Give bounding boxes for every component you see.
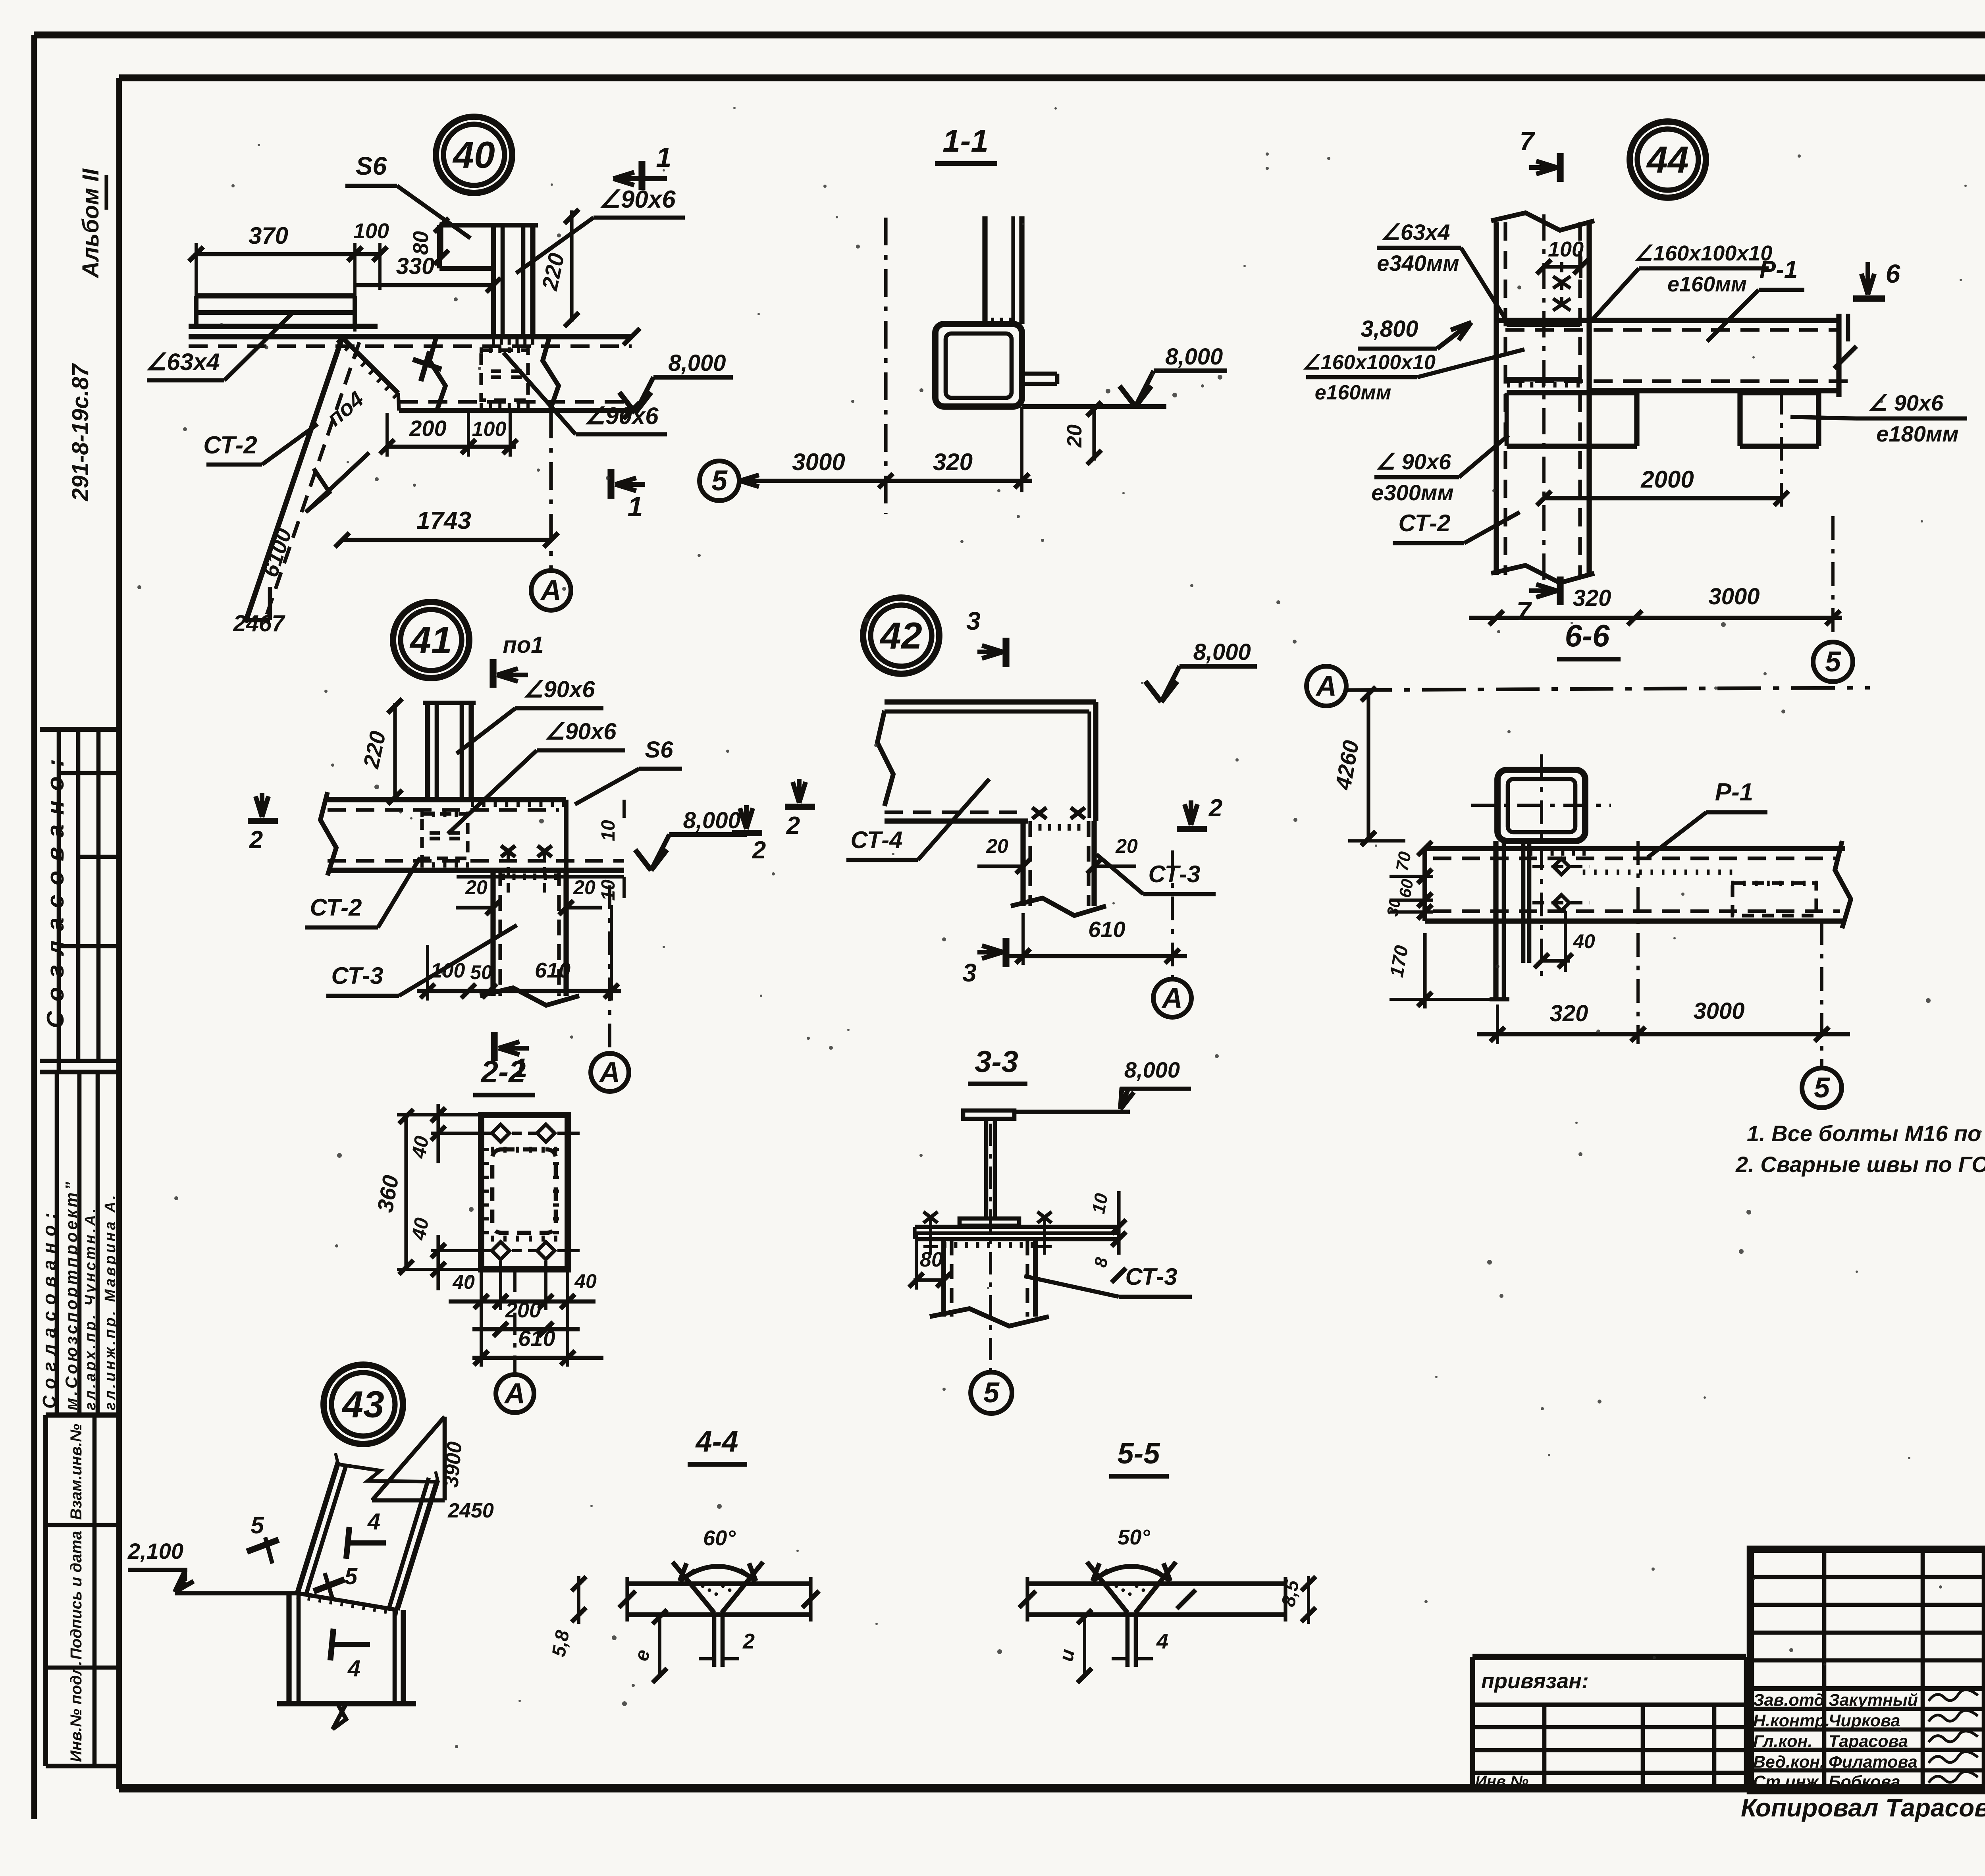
detail 43 section mark 4 upper — [346, 1540, 386, 1545]
svg-text:60: 60 — [1395, 877, 1417, 899]
detail 40 angle top chord bottom line — [189, 324, 378, 329]
detail 40 dim 370 — [196, 252, 355, 256]
plan 6-6 bottom dims — [1477, 1032, 1850, 1037]
svg-text:Закутный: Закутный — [1829, 1691, 1918, 1710]
detail 40 beam bottom dashed — [399, 400, 632, 403]
plan 6-6 column centerline — [1540, 754, 1543, 981]
title block col a — [1822, 1549, 1827, 1791]
plan 6-6 axis to circle 5 — [1820, 921, 1823, 1067]
svg-text:Согласовано:: Согласовано: — [42, 750, 69, 1028]
left table B col line 3 — [96, 1072, 100, 1415]
detail 44 beam top line — [1496, 318, 1839, 323]
section 2-2 axis circle A — [496, 1375, 534, 1413]
detail 41 axis circle A — [591, 1053, 629, 1091]
stamp column label divider — [93, 1415, 97, 1766]
left table A row line 3 — [59, 944, 119, 949]
svg-text:по1: по1 — [503, 632, 543, 658]
svg-text:4: 4 — [347, 1656, 360, 1681]
detail 44 beam end plate — [1836, 314, 1841, 397]
svg-text:5: 5 — [1814, 1072, 1830, 1104]
svg-text:610: 610 — [518, 1326, 555, 1351]
plan 6-6 bolt diamonds — [1553, 859, 1569, 875]
svg-text:20: 20 — [1063, 424, 1086, 448]
detail 41 column right pair — [460, 703, 464, 800]
privyazan table top — [1472, 1654, 1746, 1660]
svg-text:S6: S6 — [645, 737, 674, 763]
detail 44 dim 2000 — [1544, 496, 1781, 501]
svg-text:40: 40 — [407, 1216, 433, 1242]
svg-text:3000: 3000 — [1693, 998, 1744, 1024]
svg-text:320: 320 — [933, 449, 973, 475]
svg-text:5: 5 — [983, 1377, 1000, 1409]
svg-text:е300мм: е300мм — [1371, 480, 1453, 505]
detail 40 column flange left pair — [491, 225, 496, 337]
detail 41 beam bottom line — [328, 868, 624, 873]
title block col c — [1982, 1549, 1985, 1791]
section 2-2 bottom dim 40s — [449, 1300, 595, 1304]
svg-text:1: 1 — [656, 142, 672, 173]
svg-text:2: 2 — [249, 826, 263, 854]
privyazan row 2 — [1472, 1725, 1746, 1729]
svg-text:е180мм: е180мм — [1876, 421, 1958, 446]
svg-text:5: 5 — [1825, 646, 1841, 678]
detail 40 column top cap — [488, 223, 538, 228]
section 3-3 column right pair — [1025, 1240, 1029, 1317]
svg-text:∠160x100x10: ∠160x100x10 — [1634, 241, 1773, 265]
stamp column left line — [43, 1415, 48, 1766]
detail 42 column weld — [1029, 824, 1032, 831]
title block upper row 3 — [1750, 1631, 1985, 1635]
title block upper row 4 — [1750, 1658, 1985, 1663]
svg-text:80: 80 — [920, 1248, 943, 1271]
svg-text:Подпись и дата: Подпись и дата — [67, 1531, 85, 1660]
svg-text:200: 200 — [409, 416, 446, 441]
svg-text:1-1: 1-1 — [942, 123, 989, 158]
section 1-1 side tab — [1022, 372, 1057, 376]
stamp column bottom — [46, 1764, 119, 1768]
weld 4-4 plate right end — [809, 1577, 812, 1621]
svg-text:Филатова: Филатова — [1829, 1753, 1918, 1772]
svg-text:8,000: 8,000 — [1124, 1057, 1180, 1082]
svg-text:2: 2 — [786, 812, 800, 839]
section 1-1 tube inner — [946, 334, 1012, 398]
scan speckles — [1190, 584, 1193, 587]
weld 5-5 V left — [1087, 1562, 1127, 1613]
detail 40 angle left end — [194, 296, 198, 326]
left table A row line 2 — [78, 855, 119, 859]
detail 40 diagonal cut weld edge — [342, 337, 398, 393]
svg-text:10: 10 — [598, 820, 619, 841]
svg-text:40: 40 — [452, 134, 495, 176]
stamp column row podpis — [46, 1666, 119, 1670]
detail 40 beam break squiggle 2 — [543, 335, 559, 411]
detail 41 section mark 2 right — [744, 805, 749, 829]
detail 40 brace break — [306, 453, 369, 512]
detail 41 badge — [393, 602, 469, 678]
detail 41 lower column right pair — [557, 870, 561, 996]
svg-text:3,800: 3,800 — [1361, 316, 1418, 342]
plan 6-6 tube outer — [1497, 770, 1585, 841]
outer border top line — [34, 31, 1985, 38]
svg-text:А: А — [1161, 982, 1183, 1014]
svg-text:100: 100 — [1548, 237, 1584, 261]
plan 6-6 tube inner — [1508, 779, 1575, 832]
detail 40 diagonal inner dashed — [398, 393, 399, 411]
detail 44 section mark 7 bottom — [1557, 576, 1563, 605]
detail 40 badge — [436, 117, 512, 193]
svg-text:10: 10 — [1088, 1192, 1112, 1215]
section 1-1 dim line 3000/320 — [739, 479, 1032, 483]
title block name row 1 — [1750, 1707, 1985, 1711]
svg-text:Р-1: Р-1 — [1760, 256, 1798, 283]
detail 42 badge — [863, 598, 939, 674]
detail 42 beam right end — [1093, 702, 1098, 821]
svg-text:200: 200 — [505, 1298, 541, 1322]
detail 42 column left pair — [1020, 821, 1025, 906]
privyazan col 2 — [1641, 1705, 1645, 1790]
detail 41 beam top dashed — [328, 808, 559, 812]
detail 41 beam weld hatch right — [471, 800, 474, 807]
weld 5-5 V right — [1135, 1562, 1176, 1613]
section 3-3 column left pair — [941, 1240, 946, 1317]
svg-text:20: 20 — [1115, 835, 1138, 857]
svg-text:3: 3 — [962, 958, 977, 987]
svg-text:4-4: 4-4 — [695, 1425, 738, 1458]
detail 44 badge — [1630, 121, 1706, 198]
section 3-3 axis line — [989, 1124, 992, 1371]
plan 6-6 axis circle A — [1307, 666, 1346, 706]
plan 6-6 plate weld hatch — [1529, 850, 1532, 856]
svg-text:А: А — [599, 1057, 620, 1088]
svg-text:60°: 60° — [703, 1526, 736, 1550]
detail 41 lower column weld — [491, 873, 495, 880]
svg-text:100: 100 — [431, 959, 465, 982]
section 1-1 floor line — [1022, 404, 1166, 409]
weld 4-4 V left — [673, 1562, 714, 1613]
weld 4-4 plate left end — [625, 1577, 629, 1621]
weld 4-4 plate bottom line — [627, 1612, 811, 1617]
weld 5-5 plate mid tick — [1177, 1590, 1196, 1609]
svg-text:44: 44 — [1646, 139, 1689, 181]
svg-text:∠63x4: ∠63x4 — [145, 349, 220, 375]
section 1-1 tube weld marks — [991, 318, 994, 323]
svg-text:330: 330 — [396, 253, 435, 279]
detail 40 angle top chord top line — [196, 293, 355, 298]
svg-text:СТ-4: СТ-4 — [850, 827, 902, 853]
detail 41 splice dashed box — [422, 814, 468, 858]
svg-text:е160мм: е160мм — [1667, 272, 1747, 296]
svg-text:∠160x100x10: ∠160x100x10 — [1302, 351, 1436, 374]
detail 44 bolt marks — [1553, 276, 1571, 288]
svg-text:7: 7 — [1520, 126, 1536, 156]
svg-text:СТ-3: СТ-3 — [1125, 1263, 1177, 1290]
svg-text:100: 100 — [472, 418, 507, 441]
svg-text:50°: 50° — [1118, 1525, 1150, 1549]
detail 43 level line — [175, 1591, 297, 1596]
weld 4-4 arc — [680, 1566, 756, 1581]
detail 40 dim 200 100 — [387, 445, 516, 449]
detail 44 right cleat — [1740, 390, 1819, 395]
detail 40 axis circle A — [531, 571, 571, 610]
section 3-3 web — [984, 1119, 989, 1220]
privyazan row 3 — [1472, 1748, 1746, 1753]
svg-text:Р-1: Р-1 — [1715, 779, 1753, 806]
weld 5-5 plate left end — [1025, 1577, 1029, 1621]
title block name row 2 — [1750, 1728, 1985, 1732]
detail 42 section mark 2 left — [797, 779, 802, 803]
weld 5-5 plate right end — [1284, 1577, 1287, 1621]
detail 43 section mark 5 kink — [314, 1579, 345, 1591]
svg-text:∠90x6: ∠90x6 — [599, 186, 676, 213]
detail 41 elevation 8000 — [635, 850, 651, 870]
outer border left line — [31, 35, 37, 1819]
detail 44 bottom dim line — [1469, 616, 1842, 620]
detail 41 section mark 1 bottom — [491, 1032, 497, 1061]
svg-text:3-3: 3-3 — [975, 1045, 1018, 1079]
svg-text:Копировал Тарасова 22983-02: Копировал Тарасова 22983-02 /6 — [1741, 1793, 1985, 1822]
detail 40 beam right end ticks — [623, 328, 640, 345]
detail 43 section mark 5 upper — [247, 1540, 279, 1552]
title block outer rect — [1750, 1549, 1985, 1791]
plan 6-6 beam left end — [1422, 848, 1427, 921]
detail 41 section mark 2 left — [260, 793, 264, 817]
svg-text:Взам.инв.№: Взам.инв.№ — [67, 1424, 85, 1520]
weld 4-4 V right — [722, 1562, 763, 1613]
detail 44 left cleat — [1507, 390, 1637, 395]
privyazan table left — [1470, 1657, 1475, 1790]
detail 40 splice bolt marks — [491, 369, 501, 373]
svg-text:Инв.№ подл.: Инв.№ подл. — [67, 1661, 85, 1762]
detail 44 column left flange — [1494, 222, 1499, 575]
detail 43 badge — [324, 1365, 403, 1444]
detail 40 beam top dashed — [189, 344, 632, 348]
detail 40 diagonal edge 1 — [245, 337, 342, 623]
svg-text:Альбом II: Альбом II — [78, 168, 104, 279]
detail 42 beam bottom line — [885, 818, 1028, 823]
svg-text:А: А — [504, 1378, 525, 1409]
detail 44 beam top dashed — [1505, 328, 1839, 332]
svg-text:5: 5 — [251, 1512, 264, 1539]
svg-text:∠90x6: ∠90x6 — [544, 719, 617, 744]
svg-text:3000: 3000 — [1708, 584, 1760, 609]
svg-text:1: 1 — [628, 491, 643, 522]
detail 43 slope triangle — [443, 1417, 447, 1500]
svg-text:40: 40 — [574, 1270, 597, 1292]
detail 43 upper right edge — [397, 1480, 437, 1610]
detail 44 axis circle 5 — [1813, 642, 1853, 682]
detail 42 axis circle A — [1153, 979, 1191, 1017]
inner frame top line — [119, 74, 1985, 81]
title block upper row 2 — [1750, 1603, 1985, 1607]
svg-text:СТ-2: СТ-2 — [310, 894, 362, 921]
detail 40 T4 mark — [413, 359, 441, 369]
svg-text:370: 370 — [249, 222, 288, 249]
svg-text:3000: 3000 — [792, 449, 845, 475]
svg-text:Согласовано:: Согласовано: — [39, 1206, 60, 1409]
svg-text:70: 70 — [1392, 850, 1415, 873]
detail 42 bolt x marks — [1032, 808, 1046, 819]
section 2-2 plate rect — [481, 1115, 568, 1269]
svg-text:Зав.отд: Зав.отд — [1753, 1691, 1825, 1710]
title block name row 3 — [1750, 1748, 1985, 1752]
left table A row line 1 — [59, 771, 119, 775]
weld 5-5 pool dots — [1115, 1585, 1118, 1588]
weld 4-4 pool dots — [701, 1585, 705, 1588]
left table A col line 1 — [57, 729, 61, 1072]
left table A bottom line — [40, 1070, 119, 1074]
svg-text:20: 20 — [986, 835, 1008, 857]
svg-text:Бобкова: Бобкова — [1829, 1772, 1900, 1791]
detail 40 section mark 1 bottom — [607, 469, 614, 499]
plan 6-6 beam bottom dashed — [1433, 909, 1840, 913]
detail 40 splice dashed box — [481, 350, 528, 400]
section 1-1 column right edge — [1019, 216, 1024, 324]
privyazan header row — [1472, 1702, 1746, 1707]
svg-text:40: 40 — [1573, 930, 1595, 952]
section 3-3 column bottom break — [930, 1309, 1049, 1326]
detail 44 column bottom break — [1491, 565, 1594, 583]
section 3-3 level line — [1015, 1110, 1130, 1114]
privyazan row 4 — [1472, 1771, 1746, 1775]
weld 4-4 root gap — [712, 1615, 717, 1667]
detail 40 dim 1743 — [342, 538, 551, 542]
section 2-2 dim 200 — [472, 1327, 580, 1332]
weld 5-5 root gap — [1125, 1615, 1130, 1667]
svg-text:1743: 1743 — [416, 507, 471, 534]
svg-text:7: 7 — [1517, 596, 1532, 626]
left table B bottom line — [46, 1412, 119, 1417]
detail 41 axis line — [608, 885, 611, 1051]
detail 40 column flange right pair — [521, 225, 526, 337]
svg-text:50: 50 — [470, 961, 492, 983]
svg-text:42: 42 — [879, 615, 922, 657]
svg-text:2000: 2000 — [1640, 466, 1694, 493]
svg-text:гл.инж.пр. Маврина А.: гл.инж.пр. Маврина А. — [102, 1193, 119, 1410]
section 3-3 plate lines — [915, 1225, 1119, 1229]
svg-text:4: 4 — [1156, 1629, 1168, 1653]
svg-text:43: 43 — [341, 1383, 384, 1425]
svg-text:2: 2 — [742, 1629, 755, 1653]
detail 44 column left flange dashed — [1503, 222, 1507, 575]
detail 40 angle top chord mid line — [196, 310, 355, 315]
svg-text:Тарасова: Тарасова — [1829, 1732, 1908, 1751]
svg-text:гл.арх.пр. Чунстн.А.: гл.арх.пр. Чунстн.А. — [82, 1206, 99, 1410]
svg-text:А: А — [540, 575, 561, 606]
section 1-1 column left edge — [982, 216, 987, 324]
detail 42 beam bottom dashed — [885, 810, 1023, 814]
svg-text:8,000: 8,000 — [668, 350, 726, 376]
detail 44 column right flange — [1586, 222, 1592, 575]
inner frame bottom line — [119, 1784, 1985, 1792]
svg-text:СТ-2: СТ-2 — [1398, 510, 1450, 536]
detail 43 lower right edge — [393, 1610, 397, 1704]
section 1-1 centerline — [884, 218, 887, 514]
svg-text:3900: 3900 — [439, 1440, 466, 1488]
section 3-3 top flange — [963, 1111, 1014, 1119]
detail 40 diagonal edge 2 — [267, 342, 359, 615]
plan 6-6 axis circle 5 — [1802, 1068, 1842, 1108]
detail 44 column right flange dashed — [1578, 222, 1582, 575]
detail 41 bottom dims — [417, 989, 621, 993]
svg-text:∠ 90x6: ∠ 90x6 — [1868, 390, 1944, 415]
section 1-1 axis circle 5 — [700, 461, 739, 501]
plan 6-6 beam right break — [1835, 841, 1851, 928]
plan 6-6 opening dashed rect — [1733, 883, 1816, 916]
svg-text:Вед.кон.: Вед.кон. — [1753, 1753, 1825, 1772]
detail 40 axis line A — [549, 411, 553, 570]
detail 43 upper break — [338, 1464, 438, 1482]
svg-text:Гл.кон.: Гл.кон. — [1753, 1732, 1812, 1751]
svg-text:320: 320 — [1550, 1001, 1588, 1026]
plan 6-6 left plate strip — [1493, 841, 1498, 999]
svg-text:СТ-2: СТ-2 — [203, 432, 257, 459]
svg-text:е340мм: е340мм — [1377, 251, 1459, 276]
plan 6-6 axis A line — [1348, 688, 1870, 690]
svg-text:СТ-3: СТ-3 — [1148, 861, 1200, 887]
section 3-3 axis circle 5 — [971, 1372, 1012, 1413]
detail 44 column inner plate — [1507, 323, 1580, 327]
inner frame left line — [116, 78, 122, 1789]
detail 42 left break — [877, 711, 893, 806]
weld 5-5 plate bottom line — [1027, 1612, 1285, 1617]
svg-text:8,000: 8,000 — [1193, 639, 1251, 665]
plan 6-6 left dims — [1424, 848, 1425, 1008]
svg-text:2,100: 2,100 — [127, 1539, 183, 1564]
stamp column row vzam — [46, 1523, 119, 1527]
weld 5-5 plate top line — [1027, 1581, 1285, 1586]
svg-text:100: 100 — [353, 219, 389, 243]
detail 42 column right pair — [1087, 821, 1090, 906]
left table B col line 1 — [55, 1072, 59, 1415]
detail 43 section mark 4 lower — [330, 1642, 370, 1647]
left table A col line 3 — [96, 729, 101, 1061]
section 1-1 elevation 8000 — [1120, 386, 1135, 407]
svg-text:А: А — [1315, 670, 1337, 702]
detail 42 section mark 2 right — [1189, 800, 1193, 825]
svg-text:м.Союзспортпроект”: м.Союзспортпроект” — [62, 1179, 81, 1410]
left table B col line 2 — [77, 1072, 82, 1415]
title block col b — [1921, 1549, 1925, 1791]
svg-text:291-8-19с.87: 291-8-19с.87 — [67, 363, 93, 501]
svg-text:5: 5 — [345, 1564, 358, 1589]
svg-text:2467: 2467 — [233, 611, 285, 636]
svg-text:2-2: 2-2 — [480, 1054, 526, 1089]
title block name row 4 — [1750, 1768, 1985, 1773]
svg-text:4: 4 — [367, 1509, 380, 1535]
section 2-2 bolt diamonds — [492, 1124, 509, 1142]
detail 44 beam bottom dashed — [1505, 379, 1848, 383]
detail 43 lower left edge — [286, 1593, 291, 1704]
svg-text:320: 320 — [1573, 585, 1611, 611]
detail 41 column top cap — [423, 701, 476, 705]
detail 41 bolt x marks — [501, 846, 515, 857]
privyazan table right — [1744, 1657, 1748, 1790]
detail 42 axis line — [1171, 850, 1174, 977]
section 2-2 tube dashed — [492, 1149, 556, 1233]
svg-text:Инв.№: Инв.№ — [1475, 1773, 1528, 1790]
svg-text:5-5: 5-5 — [1118, 1437, 1161, 1470]
detail 41 beam top line — [328, 797, 566, 802]
section 1-1 tube outer — [935, 324, 1022, 407]
detail 41 beam bottom dashed — [328, 859, 624, 862]
svg-text:610: 610 — [1088, 917, 1125, 942]
svg-text:Чиркова: Чиркова — [1829, 1711, 1900, 1730]
left table A row line 4 — [40, 1059, 119, 1063]
detail 43 upper left edge — [297, 1462, 338, 1593]
detail 40 beam top line — [189, 334, 632, 339]
detail 41 lower column left pair — [490, 870, 495, 996]
svg-text:40: 40 — [452, 1271, 475, 1293]
